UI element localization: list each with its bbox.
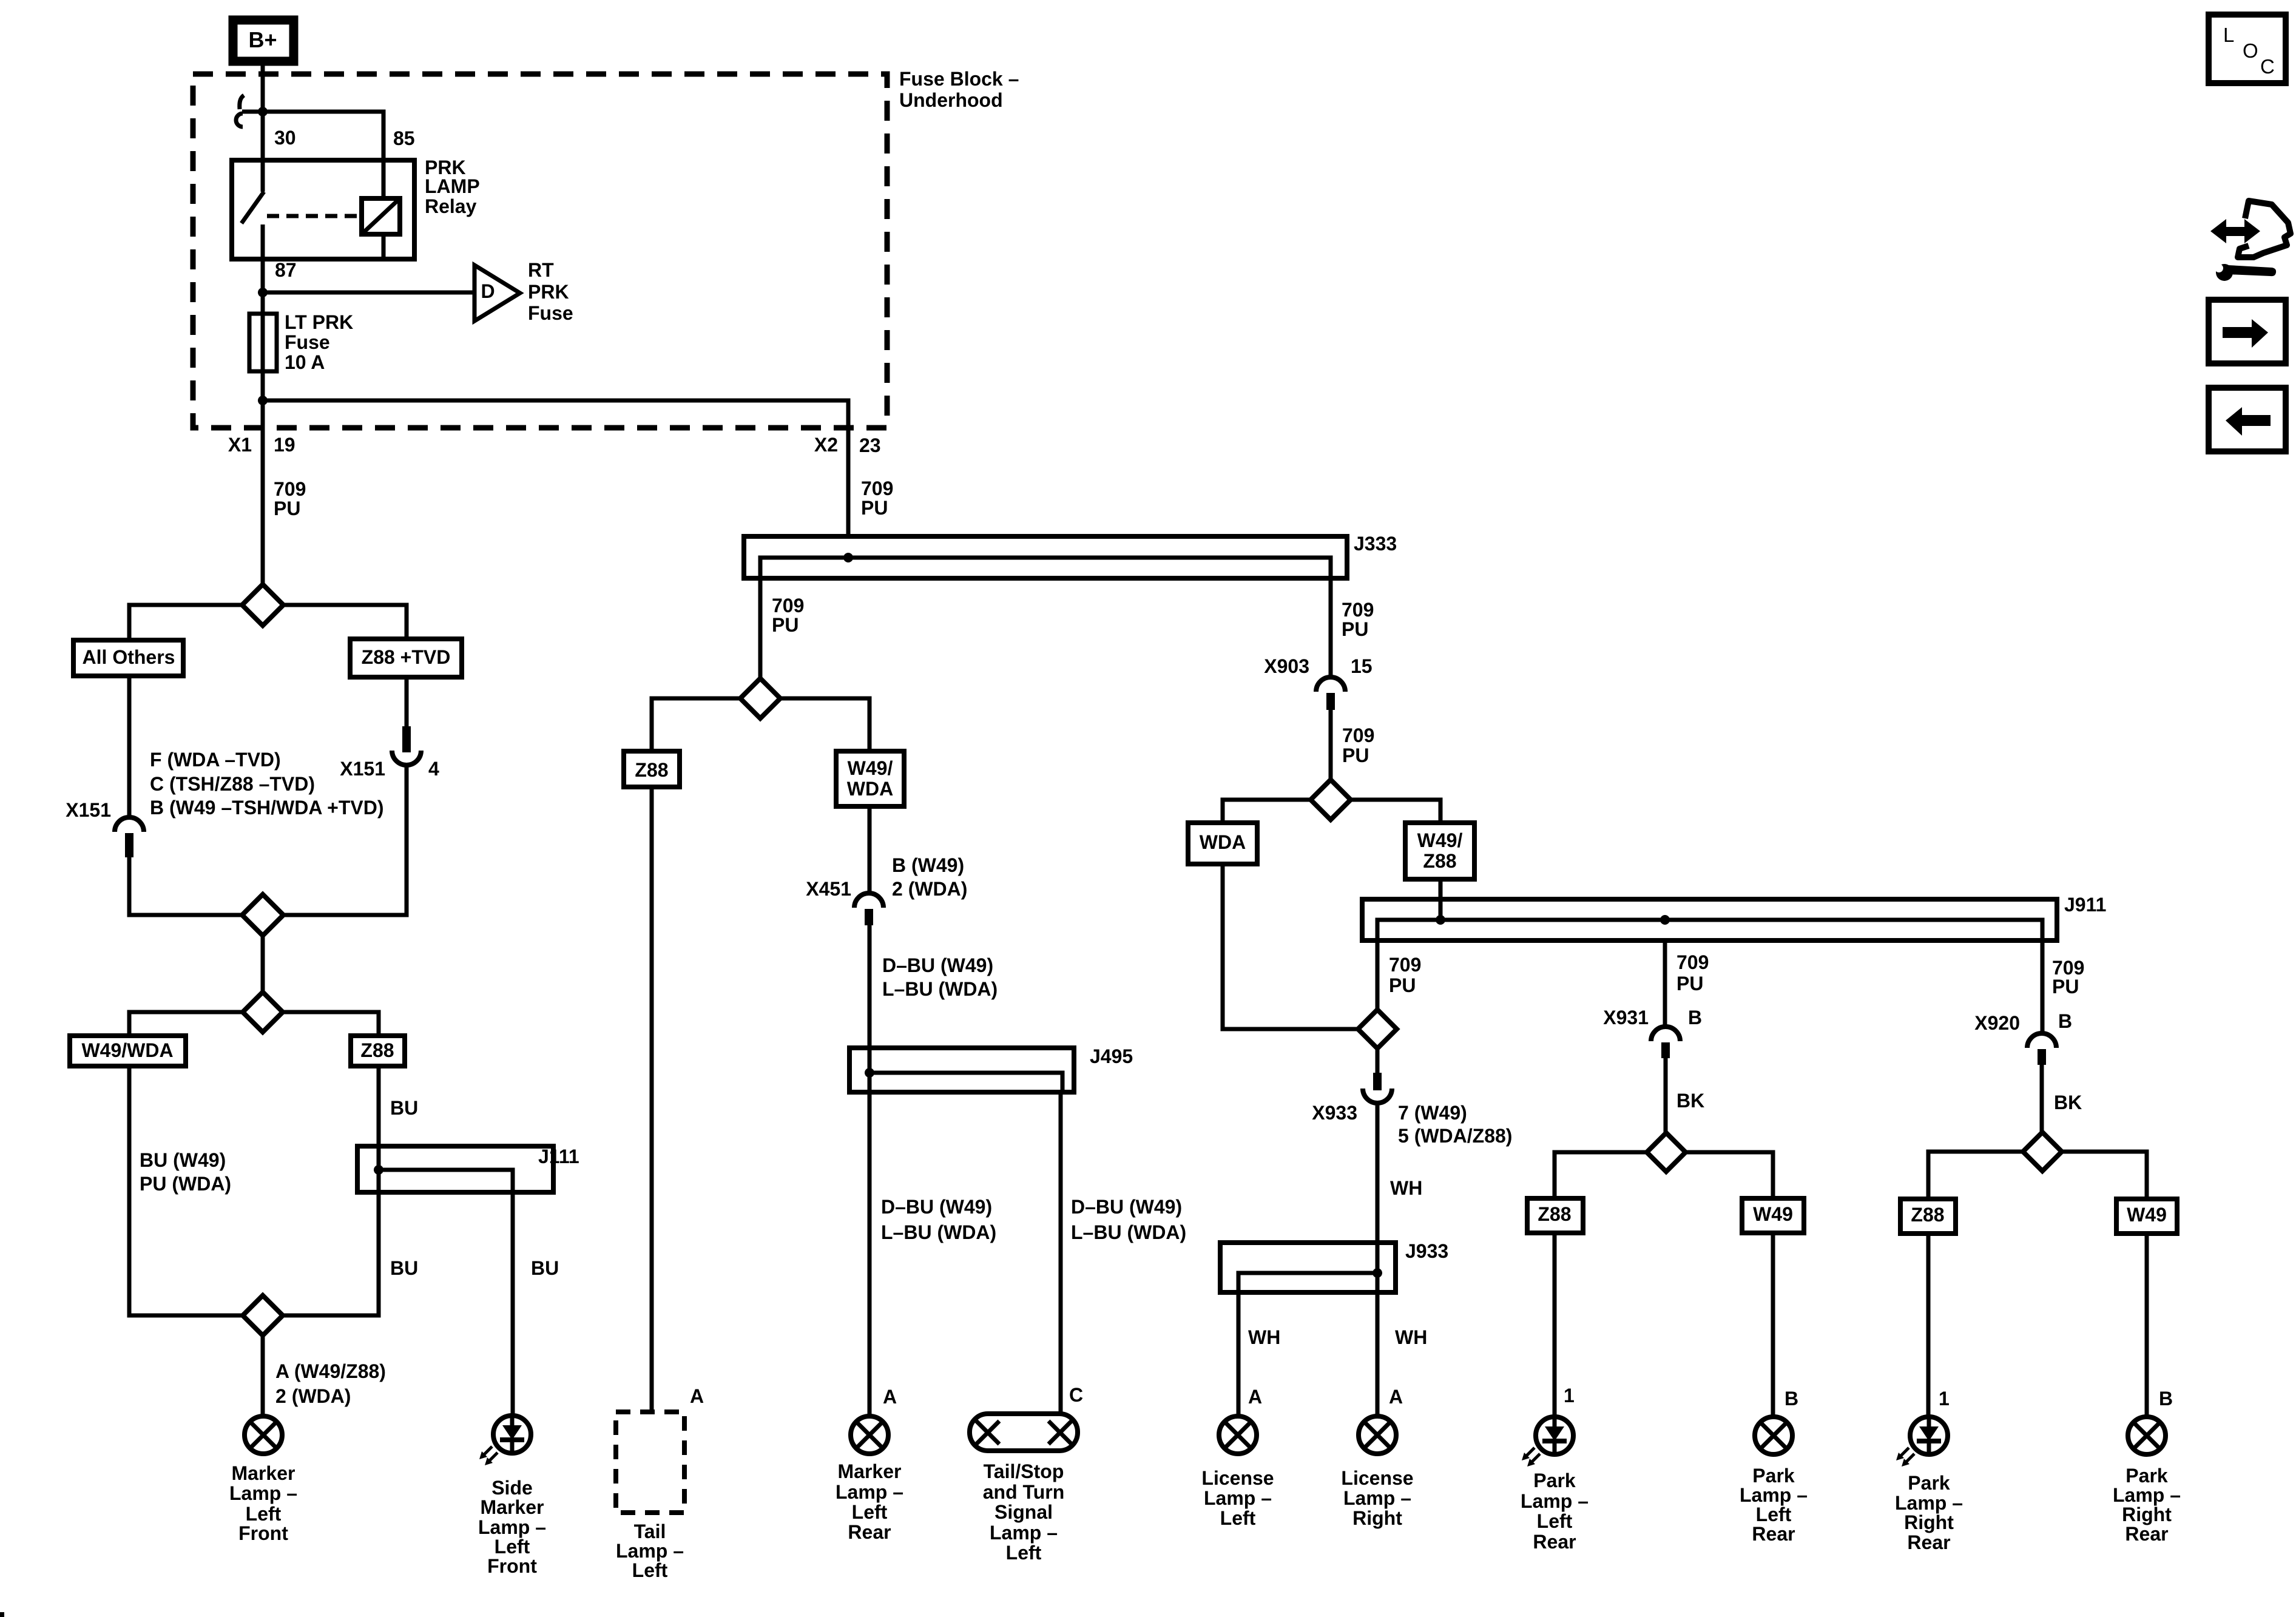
wire Z88 to park lamp right rear LED (1926, 1234, 1931, 1415)
wire W49/WDA to connector X451 (868, 806, 872, 893)
wire J495 left drop to marker lamp left rear (868, 1073, 872, 1414)
svg-text:RT: RT (528, 259, 554, 281)
splice diamond node S6 (1311, 780, 1351, 820)
lamp Marker Lamp - Left Front (245, 1416, 282, 1454)
label J911 (2064, 894, 2106, 916)
splice diamond node S9 (2023, 1132, 2062, 1171)
svg-text:C: C (1069, 1384, 1083, 1406)
svg-text:BU: BU (390, 1257, 418, 1279)
svg-text:X1: X1 (228, 434, 252, 456)
svg-text:D–BU (W49): D–BU (W49) (1071, 1196, 1182, 1218)
merge diamond node S7 (1358, 1010, 1397, 1048)
svg-text:Lamp –: Lamp – (1204, 1487, 1272, 1509)
svg-text:All Others: All Others (83, 646, 175, 668)
back arrow box (2209, 388, 2286, 451)
label X1 (228, 434, 252, 456)
power feed terminal B+ (229, 16, 298, 66)
connector X151 left half (115, 817, 144, 857)
svg-text:1: 1 (1564, 1385, 1575, 1406)
svg-text:Lamp –: Lamp – (836, 1481, 903, 1503)
label pin 1 park left (1564, 1385, 1575, 1406)
LED lamp Side Marker Lamp - Left Front (479, 1416, 531, 1465)
wire S5 to Z88 middle box (652, 698, 740, 751)
label License Lamp - Left (1201, 1467, 1274, 1529)
svg-text:PU: PU (1342, 744, 1369, 766)
svg-text:Lamp –: Lamp – (1521, 1490, 1589, 1512)
wire X151 pin 4 to merge diamond S2 (283, 765, 407, 915)
svg-text:LAMP: LAMP (425, 175, 480, 197)
label Tail Lamp - Left (616, 1521, 684, 1581)
svg-text:Left: Left (852, 1501, 888, 1523)
connector X920 pin B (2027, 1033, 2056, 1065)
wire label BK right (2054, 1092, 2082, 1113)
svg-text:D–BU (W49): D–BU (W49) (882, 954, 993, 976)
wire All Others to connector X151 (127, 676, 132, 817)
option box W49/WDA (70, 1036, 186, 1066)
svg-text:Lamp –: Lamp – (616, 1540, 684, 1562)
label PRK LAMP Relay (425, 157, 480, 217)
svg-text:X931: X931 (1603, 1007, 1649, 1028)
svg-text:Rear: Rear (2125, 1523, 2168, 1545)
label pin A tail lamp (690, 1385, 704, 1407)
svg-text:Left: Left (246, 1503, 282, 1525)
label X151 right (340, 758, 385, 780)
splice diamond node S1 (242, 584, 283, 626)
label Park Lamp - Right Rear (LED) (1895, 1472, 1963, 1553)
label 7 (W49) 5 (WDA/Z88) (1398, 1102, 1512, 1147)
wire J333 right drop to connector X903 (1329, 578, 1333, 677)
LED lamp Park Lamp - Left Rear (1522, 1417, 1573, 1467)
svg-text:709: 709 (1342, 724, 1374, 746)
svg-text:Right: Right (1904, 1511, 1954, 1533)
wire W49/WDA to merge S4 (129, 1066, 243, 1315)
svg-text:Z88: Z88 (1423, 850, 1456, 872)
svg-text:L: L (2223, 24, 2234, 46)
wire S9 to Z88 park right (1928, 1152, 2023, 1199)
label Park Lamp - Left Rear (1740, 1465, 1808, 1545)
relay switch blade (241, 192, 264, 223)
svg-text:W49/: W49/ (1417, 829, 1463, 851)
wire label 709 PU (X920) (2052, 957, 2084, 998)
label Tail/Stop and Turn Signal Lamp - Left (983, 1460, 1065, 1564)
connector X933 (1363, 1073, 1392, 1103)
wire X920 to splice diamond S9 (2040, 1065, 2044, 1132)
svg-text:X451: X451 (806, 878, 851, 900)
svg-text:F (WDA –TVD): F (WDA –TVD) (150, 749, 281, 771)
svg-text:X920: X920 (1974, 1012, 2020, 1034)
splice diamond node S3 (243, 992, 283, 1032)
wire Z88 to park lamp left rear LED (1553, 1233, 1557, 1415)
svg-text:30: 30 (274, 127, 296, 149)
wire label BU above J111 (390, 1097, 418, 1119)
svg-text:Lamp –: Lamp – (1740, 1484, 1808, 1506)
svg-text:B (W49 –TSH/WDA +TVD): B (W49 –TSH/WDA +TVD) (150, 797, 384, 819)
svg-text:J333: J333 (1354, 533, 1397, 555)
svg-text:Lamp –: Lamp – (1895, 1492, 1963, 1514)
merge diamond node S2 (242, 894, 283, 936)
svg-text:Side: Side (491, 1477, 533, 1499)
relay coil wire to box bottom (382, 234, 386, 259)
svg-text:J111: J111 (538, 1146, 579, 1167)
svg-text:Tail: Tail (634, 1521, 666, 1542)
svg-text:PU: PU (2052, 976, 2079, 998)
wire Z88 +TVD to connector X151 pin 4 (405, 677, 409, 726)
splice J933 (1220, 1243, 1396, 1292)
svg-text:Rear: Rear (1752, 1523, 1795, 1545)
lamp Park Lamp - Right Rear (2128, 1417, 2166, 1454)
svg-text:Front: Front (487, 1555, 537, 1577)
svg-text:WH: WH (1248, 1326, 1280, 1348)
svg-text:Left: Left (1537, 1510, 1573, 1532)
option box W49 park right (2116, 1199, 2177, 1234)
svg-text:A: A (883, 1386, 897, 1408)
wire S1 to All Others (129, 605, 242, 640)
svg-text:BK: BK (1676, 1090, 1704, 1112)
svg-text:Z88: Z88 (360, 1039, 394, 1061)
svg-text:License: License (1201, 1467, 1274, 1489)
svg-text:LT PRK: LT PRK (285, 311, 353, 333)
lamp Park Lamp - Left Rear (1755, 1417, 1792, 1454)
option box W49/WDA middle (836, 751, 904, 806)
wire S6 to W49/Z88 box (1351, 800, 1440, 823)
option box All Others (73, 640, 183, 676)
tail lamp dashed connector box (Tail Lamp - Left) (616, 1412, 684, 1513)
svg-text:A: A (1248, 1386, 1262, 1408)
svg-text:C (TSH/Z88 –TVD): C (TSH/Z88 –TVD) (150, 773, 315, 795)
svg-text:B: B (2058, 1010, 2072, 1032)
svg-text:X151: X151 (66, 799, 111, 821)
svg-text:B+: B+ (248, 27, 277, 52)
label X903 (1264, 655, 1309, 677)
wire B+ to relay pin 30 (261, 63, 265, 192)
wire label 709 PU (J911 left) (1389, 954, 1421, 996)
svg-text:License: License (1341, 1467, 1413, 1489)
svg-text:Park: Park (1533, 1470, 1576, 1491)
svg-text:X2: X2 (814, 434, 838, 456)
splice pack J911 (1362, 899, 2057, 940)
label pin B X931 (1688, 1007, 1702, 1028)
svg-text:10 A: 10 A (285, 351, 325, 373)
fuse LT PRK 10 A (249, 314, 277, 371)
junction node on J333 bus (843, 553, 853, 562)
svg-text:Marker: Marker (838, 1460, 902, 1482)
wire J911 middle drop to connector X931 (1663, 940, 1667, 1026)
LOC reference box (2209, 15, 2286, 83)
wire junction to relay pin 85 (242, 112, 383, 198)
svg-text:B: B (1784, 1388, 1798, 1409)
svg-text:B (W49): B (W49) (892, 854, 964, 876)
lamp Marker Lamp - Left Rear (851, 1416, 888, 1454)
svg-text:Left: Left (495, 1536, 530, 1558)
wire S8 to W49 park left (1686, 1152, 1773, 1198)
wire label 709 PU (J333 left) (772, 595, 804, 636)
svg-text:Lamp –: Lamp – (990, 1522, 1058, 1544)
svg-text:WDA: WDA (847, 778, 893, 800)
wire Z88 middle to tail lamp left (650, 787, 654, 1412)
wire W49 to park lamp left rear bulb (1771, 1233, 1775, 1415)
svg-text:WDA: WDA (1200, 831, 1246, 853)
svg-text:L–BU (WDA): L–BU (WDA) (882, 978, 998, 1000)
wire J911 right drop to connector X920 (2041, 940, 2045, 1033)
wire label BU left drop (390, 1257, 418, 1279)
label pin B park right (2159, 1388, 2173, 1409)
svg-text:PU: PU (1342, 618, 1368, 640)
label pin C (1069, 1384, 1083, 1406)
label J333 (1354, 533, 1397, 555)
junction node below fuse (258, 396, 268, 405)
svg-text:Left: Left (1006, 1542, 1042, 1564)
svg-text:87: 87 (275, 259, 297, 281)
svg-text:Z88: Z88 (635, 759, 668, 781)
wire label WH above J933 (1390, 1177, 1422, 1199)
label LT PRK Fuse 10 A (285, 311, 353, 373)
svg-text:709: 709 (1389, 954, 1421, 976)
wire J111 left drop to merge S4 (283, 1170, 379, 1315)
label pin A license left (1248, 1386, 1262, 1408)
wire label D-BU L-BU right drop (1071, 1196, 1186, 1243)
wire label D-BU L-BU left drop (881, 1196, 996, 1243)
svg-text:Relay: Relay (425, 195, 477, 217)
svg-text:B: B (2159, 1388, 2173, 1409)
label pin 85 (393, 127, 415, 149)
wire J933 left drop to license lamp left (1237, 1292, 1241, 1414)
svg-text:15: 15 (1351, 655, 1373, 677)
svg-text:C: C (2260, 55, 2275, 78)
label pin 1 park right (1939, 1388, 1950, 1409)
svg-text:D: D (481, 280, 495, 302)
svg-text:Marker: Marker (481, 1496, 544, 1518)
svg-text:2 (WDA): 2 (WDA) (892, 878, 967, 900)
wire J495 right drop to tail/stop lamp (1059, 1092, 1063, 1413)
wire S6 to WDA box (1223, 800, 1311, 823)
svg-text:and Turn: and Turn (983, 1481, 1065, 1503)
label pin 23 (859, 434, 881, 456)
option box Z88 left (351, 1036, 405, 1066)
svg-text:PU: PU (772, 614, 799, 636)
svg-text:X933: X933 (1312, 1102, 1357, 1124)
label Marker Lamp - Left Rear (836, 1460, 903, 1543)
label X151 left (66, 799, 111, 821)
svg-text:Right: Right (1352, 1507, 1402, 1529)
svg-text:A (W49/Z88): A (W49/Z88) (275, 1360, 386, 1382)
svg-text:Fuse: Fuse (528, 302, 573, 324)
wire S9 to W49 park right (2062, 1152, 2147, 1199)
wire J911 left drop to merge diamond S7 (1376, 940, 1380, 1010)
svg-text:PRK: PRK (528, 281, 569, 303)
svg-text:Tail/Stop: Tail/Stop (984, 1460, 1064, 1482)
option box W49/Z88 (1405, 823, 1474, 879)
svg-text:WH: WH (1395, 1326, 1427, 1348)
svg-text:WH: WH (1390, 1177, 1422, 1199)
wire S3 to Z88 box (283, 1012, 379, 1036)
forward arrow box (2209, 300, 2286, 363)
option box W49 park left (1742, 1198, 1804, 1233)
label pin B park left (1784, 1388, 1798, 1409)
wire relay pin 87 down (261, 224, 265, 292)
RT PRK Fuse off-page triangle D (474, 265, 520, 321)
wire X451 to splice J495 (868, 925, 872, 1073)
svg-text:O: O (2243, 39, 2258, 62)
relay coil box (362, 198, 400, 234)
wire label BU right drop (531, 1257, 559, 1279)
merge diamond node S4 (243, 1295, 283, 1335)
label X451 (806, 878, 851, 900)
svg-text:709: 709 (861, 478, 893, 499)
label J495 (1090, 1045, 1133, 1067)
wire label 709 PU (J333 right) (1342, 599, 1374, 640)
svg-text:W49/: W49/ (848, 757, 893, 779)
label pin 87 (275, 259, 297, 281)
svg-text:Left: Left (1756, 1504, 1792, 1525)
relay PRK LAMP outline (232, 160, 414, 259)
wire X933 to splice J933 (1376, 1103, 1380, 1273)
splice J111 (357, 1146, 553, 1192)
svg-text:Right: Right (2122, 1504, 2172, 1525)
label pin B X920 (2058, 1010, 2072, 1032)
option box Z88 park right (1900, 1199, 1956, 1234)
lamp Tail/Stop and Turn Signal Lamp - Left (970, 1414, 1078, 1451)
svg-text:Lamp –: Lamp – (2113, 1484, 2181, 1506)
label License Lamp - Right (1341, 1467, 1413, 1529)
label Side Marker Lamp - Left Front (478, 1477, 546, 1577)
svg-text:W49/WDA: W49/WDA (81, 1039, 173, 1061)
svg-text:709: 709 (1342, 599, 1374, 621)
wire label WH license right (1395, 1326, 1427, 1348)
svg-text:19: 19 (274, 434, 295, 456)
svg-text:709: 709 (274, 478, 306, 500)
wire label BK left (1676, 1090, 1704, 1112)
wire WDA box to merge diamond S7 (1223, 864, 1358, 1029)
svg-text:Z88 +TVD: Z88 +TVD (362, 646, 451, 668)
svg-text:709: 709 (1676, 951, 1709, 973)
svg-text:Left: Left (632, 1559, 668, 1581)
wire J111 right drop to side marker lamp (511, 1192, 515, 1414)
connector X931 pin B (1651, 1027, 1680, 1058)
svg-text:D–BU (W49): D–BU (W49) (881, 1196, 992, 1218)
wire J933 right drop to license lamp right (1376, 1273, 1380, 1414)
label F (WDA -TVD) C (TSH/Z88 -TVD) B (W49 -TSH/WDA +TVD) (150, 749, 384, 819)
svg-text:J495: J495 (1090, 1045, 1133, 1067)
label pin 30 (274, 127, 296, 149)
svg-text:1: 1 (1939, 1388, 1950, 1409)
svg-text:A: A (1389, 1386, 1403, 1408)
svg-text:Z88: Z88 (1911, 1204, 1944, 1226)
svg-text:Fuse Block –: Fuse Block – (899, 68, 1019, 90)
splice diamond node S5 (740, 678, 780, 718)
svg-text:5 (WDA/Z88): 5 (WDA/Z88) (1398, 1125, 1512, 1147)
svg-text:PU: PU (1389, 974, 1416, 996)
wire W49 to park lamp right rear bulb (2145, 1234, 2149, 1415)
clip/takeout hook symbol on B+ feed (236, 95, 244, 127)
svg-text:Rear: Rear (1907, 1531, 1950, 1553)
label Marker Lamp - Left Front (229, 1462, 297, 1544)
option box Z88 +TVD (350, 639, 462, 677)
label X920 (1974, 1012, 2020, 1034)
svg-text:PU (WDA): PU (WDA) (140, 1173, 231, 1195)
connector X151 right half pin 4 (392, 726, 421, 765)
splice diamond node S8 (1647, 1133, 1686, 1172)
svg-text:PU: PU (1676, 973, 1703, 994)
label Park Lamp - Right Rear (2113, 1465, 2181, 1545)
wire label D-BU (W49) L-BU (WDA) upper (882, 954, 998, 1000)
svg-text:Z88: Z88 (1538, 1203, 1571, 1225)
lamp License Lamp - Right (1359, 1416, 1396, 1454)
option box WDA (1188, 823, 1257, 864)
wire S7 to connector X933 (1376, 1048, 1380, 1073)
label J933 (1405, 1240, 1448, 1262)
label pin A marker rear (883, 1386, 897, 1408)
svg-text:X151: X151 (340, 758, 385, 780)
label Fuse Block - Underhood (899, 68, 1019, 111)
wire pin 87 to LT PRK fuse (261, 292, 265, 407)
relay actuator dashed link (267, 214, 359, 218)
svg-text:PU: PU (274, 498, 300, 519)
label pin A license right (1389, 1386, 1403, 1408)
svg-text:Rear: Rear (1533, 1531, 1576, 1553)
svg-text:A: A (690, 1385, 704, 1407)
svg-text:Underhood: Underhood (899, 89, 1003, 111)
wire S1 to Z88 +TVD (283, 605, 407, 639)
label RT PRK Fuse (528, 259, 573, 324)
svg-text:W49: W49 (1753, 1203, 1793, 1225)
connector X903 pin 15 (1316, 677, 1345, 710)
wire X151 left to merge diamond S2 (129, 857, 242, 915)
svg-text:Lamp –: Lamp – (229, 1482, 297, 1504)
LED lamp Park Lamp - Right Rear (1896, 1417, 1948, 1467)
svg-text:BK: BK (2054, 1092, 2082, 1113)
wire label 709 PU (X1) (274, 478, 306, 519)
svg-text:Signal: Signal (994, 1501, 1053, 1523)
wire label 709 PU below X903 (1342, 724, 1374, 766)
wire S8 to Z88 park left (1555, 1152, 1647, 1198)
junction node on B+ feed (258, 107, 268, 116)
wire label 709 PU (X931) (1676, 951, 1709, 994)
svg-text:Left: Left (1220, 1507, 1256, 1529)
svg-text:4: 4 (428, 758, 439, 780)
label J111 (538, 1146, 579, 1167)
fuse block dashed border (Fuse Block - Underhood) (193, 74, 887, 428)
label Park Lamp - Left Rear (LED) (1521, 1470, 1589, 1553)
wire fuse to X2 terminal (263, 400, 848, 538)
wire S3 to W49/WDA box (129, 1012, 243, 1036)
svg-text:W49: W49 (2127, 1204, 2167, 1226)
wire S5 to W49/WDA middle box (780, 698, 869, 751)
svg-text:BU (W49): BU (W49) (140, 1149, 226, 1171)
label pin 15 (1351, 655, 1373, 677)
svg-text:BU: BU (390, 1097, 418, 1119)
svg-text:J933: J933 (1405, 1240, 1448, 1262)
wire pin 87 to RT PRK fuse symbol (263, 291, 474, 295)
hand-with-wrench service icon (2208, 201, 2291, 281)
wire Z88 to splice J111 (377, 1066, 381, 1170)
wire S4 to marker lamp left front (261, 1335, 265, 1414)
label X931 (1603, 1007, 1649, 1028)
svg-text:PU: PU (861, 497, 888, 519)
label A (W49/Z88) 2 (WDA) (275, 1360, 386, 1407)
wire label WH license left (1248, 1326, 1280, 1348)
option box Z88 park left (1527, 1198, 1583, 1233)
wire X903 to splice diamond S6 (1329, 710, 1333, 780)
svg-text:Front: Front (238, 1522, 288, 1544)
label X2 (814, 434, 838, 456)
lamp License Lamp - Left (1219, 1416, 1257, 1454)
svg-text:23: 23 (859, 434, 881, 456)
junction node pin 87 (258, 288, 268, 297)
wire label 709 PU (X2) (861, 478, 893, 519)
wire fuse block exit X1 pin 19 down (261, 400, 265, 585)
wire S2 to S3 (261, 935, 265, 993)
wire W49/Z88 to splice J911 (1439, 879, 1443, 920)
